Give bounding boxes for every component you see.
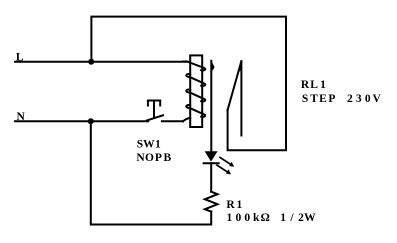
- junction node L: [88, 59, 94, 65]
- svg-text:100kΩ 1/2W: 100kΩ 1/2W: [227, 212, 317, 224]
- relay blade arrowhead: [237, 61, 241, 72]
- relay coil RL1 winding: [183, 62, 205, 122]
- LED light arrow 1 shaft: [219, 157, 231, 165]
- relay contact blade: [228, 61, 242, 110]
- svg-text:RL1: RL1: [301, 79, 326, 91]
- relay contact armature line: [210, 61, 212, 151]
- relay coil RL1 core: [190, 55, 202, 127]
- wire switch to coil: [162, 120, 183, 122]
- LED D1 triangle: [205, 151, 218, 161]
- wire N branch down to bottom rail: [91, 121, 211, 224]
- LED light arrow 2 head: [226, 169, 231, 174]
- svg-text:N: N: [17, 111, 26, 123]
- wire N line: [15, 120, 148, 122]
- switch SW1 blade: [147, 115, 163, 120]
- svg-text:L: L: [16, 51, 24, 63]
- LED D1 cathode bar: [204, 162, 219, 164]
- switch SW1 plunger: [148, 101, 160, 106]
- relay armature arrowhead: [211, 61, 214, 73]
- resistor R1 zigzag: [205, 192, 218, 212]
- svg-text:NOPB: NOPB: [136, 152, 171, 164]
- svg-text:R1: R1: [226, 199, 242, 211]
- LED light arrow 1 head: [229, 162, 234, 167]
- wire L line: [15, 61, 190, 63]
- junction node N: [88, 118, 94, 124]
- svg-text:STEP 230V: STEP 230V: [302, 93, 382, 105]
- relay contact fixed terminal: [240, 61, 242, 135]
- LED light arrow 2 shaft: [216, 165, 228, 172]
- wire top horizontal from L branch to relay contact frame: [91, 17, 286, 151]
- svg-text:SW1: SW1: [137, 139, 161, 151]
- wire LED to resistor: [210, 163, 212, 192]
